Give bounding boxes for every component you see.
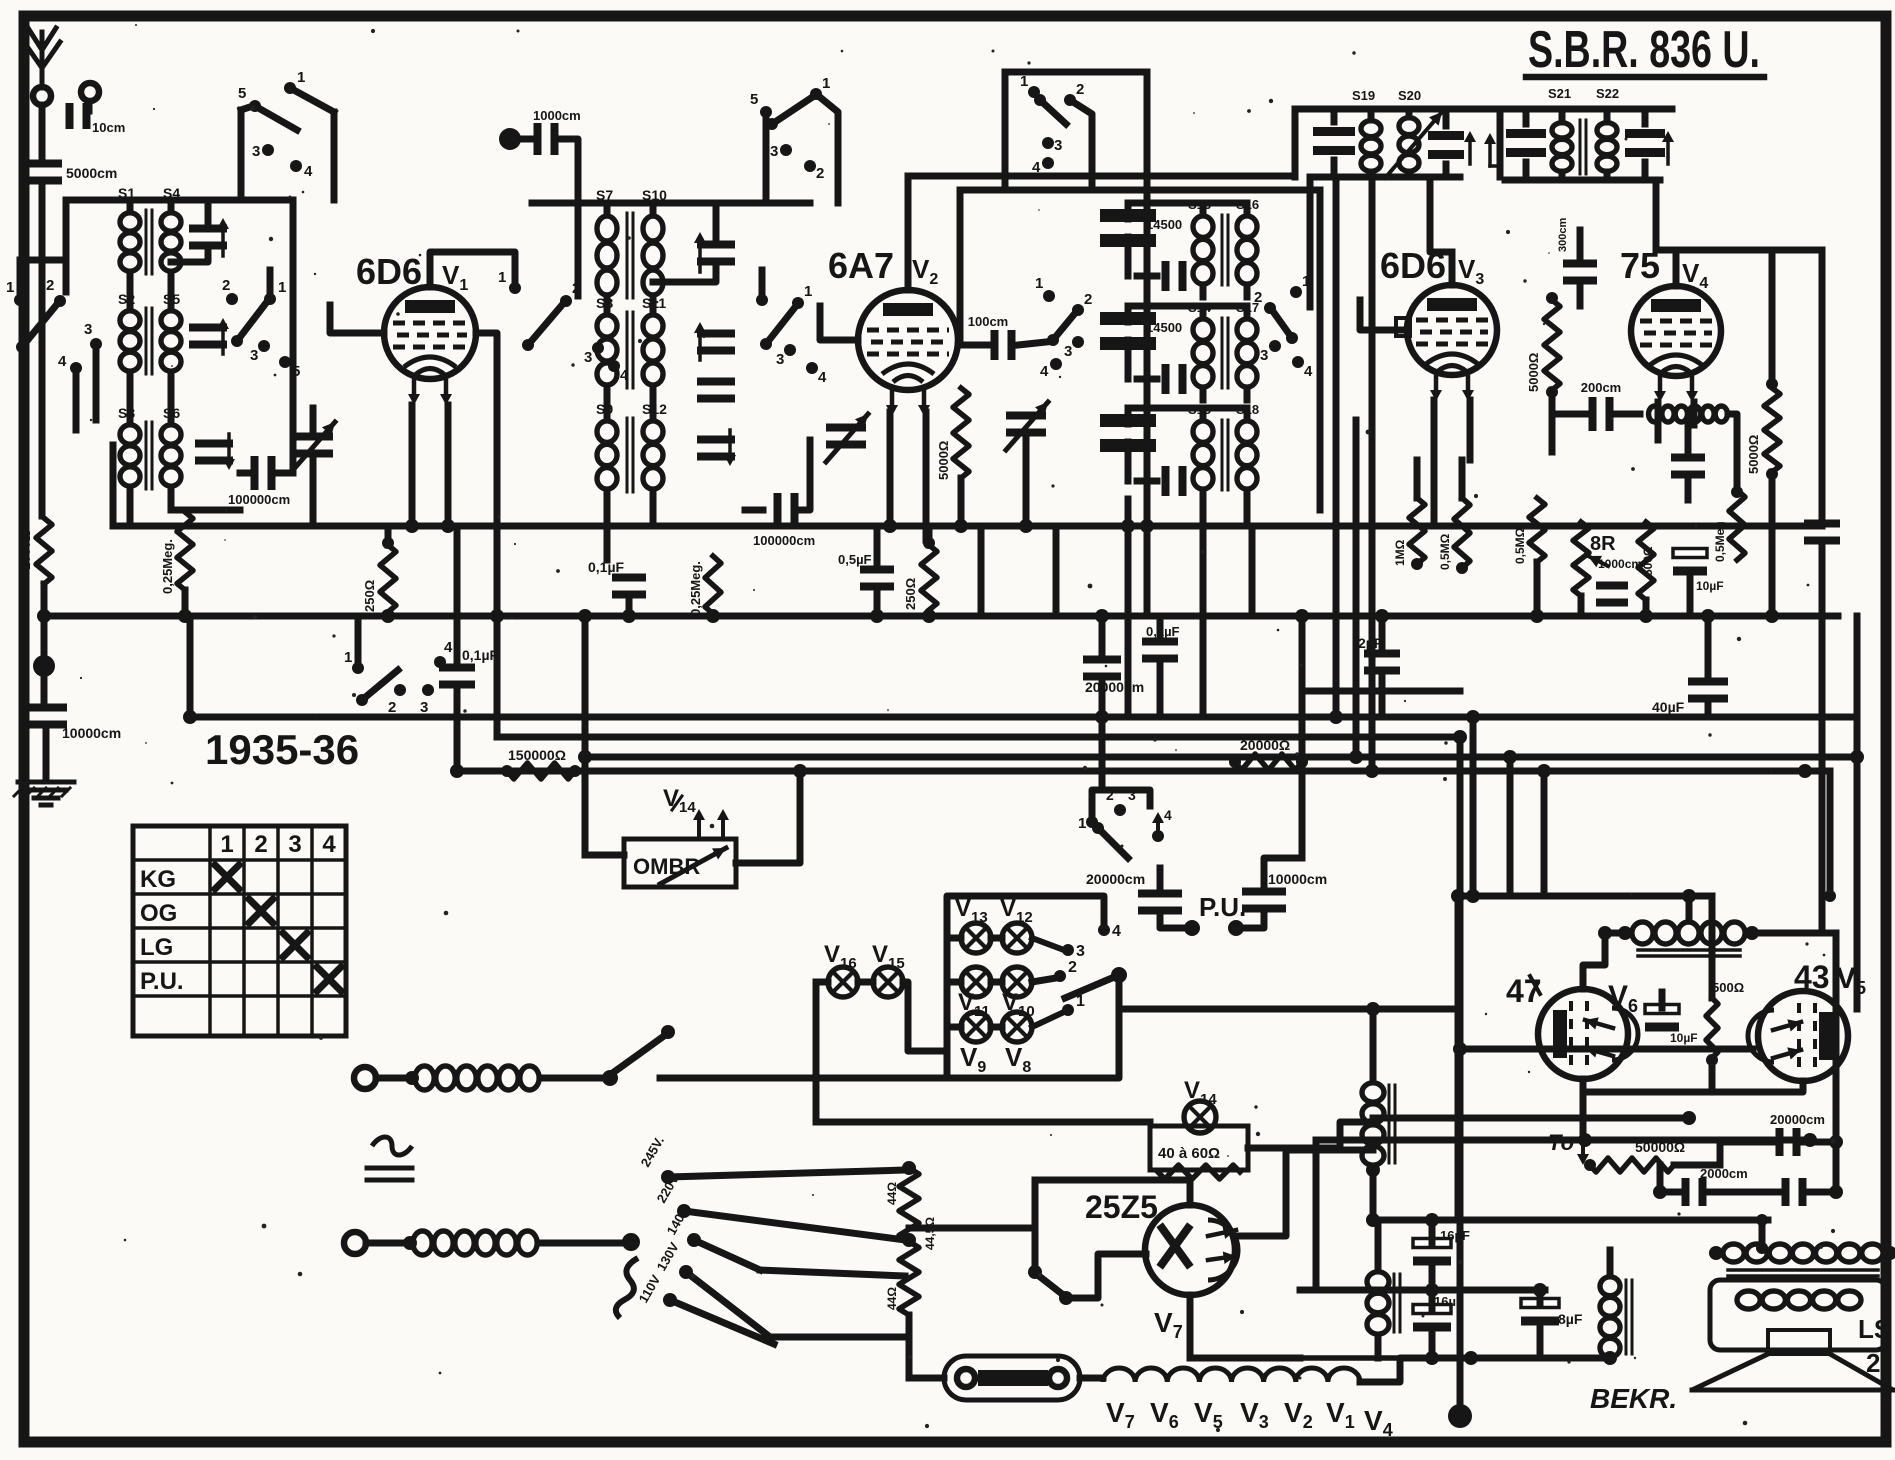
svg-text:200cm: 200cm	[1581, 380, 1621, 395]
svg-text:2: 2	[254, 831, 267, 858]
wire	[1092, 717, 1150, 822]
resistor 1MΩ	[1393, 498, 1425, 570]
capacitor 14500 #1	[1100, 209, 1182, 247]
wire	[43, 730, 50, 780]
wire fan	[668, 1170, 905, 1276]
capacitor 0.1µF	[1142, 624, 1180, 663]
wire	[430, 252, 515, 287]
capacitor 10cm	[66, 101, 126, 135]
date label 1935-36	[205, 726, 359, 773]
core	[627, 312, 633, 388]
wire	[0, 0, 1, 1]
wire	[0, 0, 1, 1]
tuning indicator OMBR box	[624, 839, 736, 887]
switch contact 4	[1098, 923, 1121, 940]
label V2	[1284, 1397, 1313, 1432]
switch	[1078, 787, 1136, 858]
capacitor	[1162, 364, 1187, 394]
svg-text:5000Ω: 5000Ω	[936, 441, 951, 480]
wire	[1032, 959, 1077, 982]
svg-text:1: 1	[220, 831, 233, 858]
svg-text:1: 1	[804, 283, 812, 300]
svg-text:500Ω: 500Ω	[1712, 980, 1744, 995]
svg-text:4: 4	[322, 831, 336, 858]
svg-text:1: 1	[822, 75, 830, 92]
label 43 V5	[1794, 959, 1866, 998]
svg-text:LG: LG	[140, 934, 173, 961]
resistor 500Ω	[1706, 998, 1718, 1066]
wire	[1203, 285, 1247, 297]
coil S6	[161, 405, 181, 486]
wire	[1658, 402, 1694, 440]
svg-text:3: 3	[1064, 343, 1072, 360]
wire	[412, 405, 448, 526]
tap 220V	[654, 1171, 691, 1218]
lamp V10	[1002, 989, 1035, 1042]
svg-text:1: 1	[6, 279, 14, 296]
wire	[978, 526, 985, 616]
tube V5 43	[1748, 991, 1848, 1081]
capacitor 100cm	[958, 314, 1046, 360]
wire	[187, 616, 194, 717]
wire	[39, 181, 46, 516]
svg-text:2: 2	[1084, 291, 1092, 308]
capacitor	[1804, 520, 1840, 545]
switch contact 3	[252, 143, 274, 160]
label 25Z5	[1085, 1189, 1158, 1225]
mains choke	[415, 1066, 539, 1090]
wire	[1125, 499, 1132, 717]
wire	[1505, 162, 1660, 180]
wire	[1300, 1290, 1610, 1358]
tube V6 47	[1538, 980, 1638, 1079]
svg-text:1: 1	[297, 69, 305, 86]
capacitor 40µF	[1652, 678, 1728, 716]
antenna terminal 2	[81, 83, 99, 101]
capacitor 14500 #2	[1100, 312, 1182, 350]
svg-text:14500: 14500	[1146, 320, 1182, 335]
antenna	[24, 28, 60, 88]
coil S18	[1236, 402, 1259, 489]
wire	[890, 412, 926, 540]
label V14	[663, 785, 696, 816]
svg-text:LS: LS	[1858, 1314, 1891, 1344]
switch	[498, 269, 521, 294]
wire	[1824, 771, 1836, 902]
tube V4 75	[1620, 245, 1721, 402]
wire	[1705, 616, 1712, 717]
coil S5	[161, 291, 181, 371]
wire	[1144, 526, 1151, 616]
wire	[1369, 177, 1376, 771]
lamp panel frame	[947, 896, 1104, 1078]
wire	[1366, 1163, 1380, 1220]
wire	[1203, 306, 1247, 318]
svg-text:5: 5	[238, 85, 246, 102]
wire	[1455, 896, 1462, 1220]
wire	[538, 1233, 640, 1251]
svg-text:44Ω: 44Ω	[885, 1182, 899, 1205]
svg-text:3: 3	[1260, 347, 1268, 364]
wire	[1157, 616, 1164, 717]
svg-text:S21: S21	[1548, 86, 1571, 101]
label P.U.	[1199, 892, 1246, 922]
coil S22	[1596, 86, 1619, 171]
wire	[1023, 434, 1030, 526]
svg-text:20000cm: 20000cm	[1085, 679, 1144, 695]
lamp V13	[955, 895, 991, 953]
wire	[1709, 896, 1716, 1092]
switch arm	[1032, 938, 1085, 960]
svg-text:P.U.: P.U.	[1199, 892, 1246, 922]
wire	[0, 0, 1, 1]
core	[1580, 120, 1586, 174]
svg-text:P.U.: P.U.	[140, 968, 184, 995]
trimmer arrow	[1662, 131, 1674, 164]
coil S12	[642, 401, 667, 489]
svg-text:1000cm: 1000cm	[1598, 557, 1642, 571]
svg-text:2: 2	[1076, 81, 1084, 98]
wire	[1505, 106, 1672, 113]
wire	[909, 1180, 1035, 1266]
svg-text:1MΩ: 1MΩ	[1393, 539, 1407, 566]
ground	[14, 782, 74, 805]
svg-text:1: 1	[1078, 815, 1086, 832]
wire	[1203, 490, 1247, 502]
capacitor 2µF	[1358, 635, 1400, 675]
capacitor 8µF	[1521, 1299, 1583, 1328]
wire	[1453, 1042, 1753, 1056]
svg-text:10cm: 10cm	[92, 120, 125, 135]
wire	[1549, 390, 1556, 452]
switch	[522, 280, 580, 351]
wire	[454, 526, 461, 771]
resistor 5000Ω	[1526, 292, 1560, 398]
wire	[1307, 177, 1314, 307]
wire	[376, 1071, 419, 1085]
mains switch	[614, 1025, 675, 1072]
tap 245V	[638, 1134, 675, 1184]
svg-text:16µF: 16µF	[1440, 1228, 1470, 1243]
svg-text:2: 2	[222, 277, 230, 294]
wire	[909, 1375, 1103, 1382]
core	[146, 422, 152, 489]
wire	[1334, 109, 1446, 126]
svg-text:3: 3	[1076, 943, 1085, 960]
wire	[1190, 1295, 1300, 1358]
wire	[1429, 1220, 1436, 1290]
coil S14	[1188, 300, 1213, 387]
wire	[0, 0, 1, 1]
svg-text:1: 1	[1035, 275, 1043, 292]
svg-text:2: 2	[1866, 1348, 1880, 1378]
wire B+	[1373, 1115, 1689, 1122]
resistor 5000Ω	[936, 388, 969, 480]
svg-text:BEKR.: BEKR.	[1590, 1383, 1677, 1414]
wire	[66, 197, 293, 204]
wire	[0, 0, 1, 1]
filter choke	[1362, 1083, 1395, 1165]
wire	[0, 0, 1, 1]
svg-text:100000cm: 100000cm	[228, 492, 290, 507]
svg-text:1: 1	[344, 649, 352, 666]
wire	[540, 1070, 618, 1086]
wire	[1854, 616, 1861, 1009]
switch	[1035, 275, 1092, 346]
variable capacitor	[826, 414, 868, 462]
capacitor	[1313, 127, 1355, 155]
capacitor 0.5µF	[838, 552, 894, 591]
wire	[130, 200, 208, 262]
mains choke	[413, 1231, 537, 1255]
squiggle	[616, 1258, 638, 1318]
label To	[1548, 1130, 1574, 1155]
capacitor 1000cm	[1596, 557, 1642, 607]
trimmer capacitor	[694, 232, 735, 272]
speaker transformer	[1709, 1244, 1895, 1276]
label V7	[1106, 1397, 1135, 1432]
wire	[1160, 868, 1200, 936]
switch contact 3	[84, 321, 102, 350]
wire	[331, 112, 338, 200]
svg-text:0,5µF: 0,5µF	[838, 552, 872, 567]
wire	[1537, 562, 1690, 616]
wire	[41, 584, 48, 660]
svg-text:20000Ω: 20000Ω	[1240, 737, 1290, 753]
resistor 0.5MΩ	[1713, 486, 1745, 562]
svg-text:2: 2	[1068, 959, 1077, 976]
wire	[736, 771, 800, 863]
wire	[874, 526, 881, 616]
wire	[1248, 1122, 1373, 1148]
capacitor 10000cm	[25, 704, 121, 742]
wire	[0, 0, 1, 1]
lamp V16	[824, 941, 858, 997]
svg-text:5: 5	[292, 363, 300, 380]
capacitor 10000cm	[1242, 871, 1327, 913]
wire	[0, 0, 1, 1]
wire	[1053, 526, 1060, 616]
indicator leads	[693, 809, 729, 839]
wire	[1236, 1150, 1373, 1236]
core	[146, 210, 152, 274]
L arrow	[1484, 133, 1500, 166]
switch contact 3	[250, 340, 270, 364]
svg-text:8R: 8R	[1590, 533, 1616, 555]
lamp	[1002, 967, 1032, 997]
node	[1448, 1404, 1472, 1428]
svg-text:14500: 14500	[1146, 217, 1182, 232]
node	[33, 655, 55, 677]
resistor 20000Ω	[0, 0, 1, 1]
svg-text:20000cm: 20000cm	[1770, 1112, 1825, 1127]
wire	[0, 0, 1, 1]
wire	[0, 0, 1, 1]
svg-text:KG: KG	[140, 866, 176, 893]
wire	[1503, 750, 1517, 896]
svg-text:OG: OG	[140, 900, 177, 927]
wire	[1228, 616, 1302, 936]
svg-text:0,1µF: 0,1µF	[588, 559, 625, 575]
wire	[1128, 306, 1203, 322]
wire	[1035, 1180, 1190, 1205]
wire	[0, 0, 1, 1]
svg-text:6D6: 6D6	[356, 251, 422, 292]
ballast box 40-60Ω	[1150, 1126, 1248, 1170]
wire	[130, 487, 240, 526]
capacitor 20000cm	[1083, 656, 1144, 696]
selector arm	[1065, 967, 1127, 998]
wire	[1607, 1250, 1614, 1276]
wire	[607, 490, 653, 560]
wire	[820, 306, 858, 340]
coil S21	[1548, 86, 1572, 171]
wire	[41, 666, 48, 702]
wire	[240, 200, 293, 473]
wire	[1656, 180, 1822, 286]
switch contact 4	[1040, 358, 1062, 380]
svg-text:1: 1	[498, 269, 506, 286]
wire bus L4	[456, 768, 1830, 775]
wire	[1099, 616, 1106, 717]
terminal	[499, 128, 521, 150]
wire	[1752, 933, 1836, 1192]
wire	[1310, 160, 1460, 177]
wire	[947, 979, 1002, 986]
svg-text:4: 4	[1304, 363, 1313, 380]
resistor 5000Ω	[1746, 378, 1780, 480]
wire	[1300, 1287, 1545, 1294]
coil S16	[1236, 197, 1259, 284]
capacitor 14500 #3	[1100, 414, 1156, 452]
svg-text:2: 2	[388, 699, 396, 716]
capacitor 5000cm	[26, 160, 117, 185]
svg-text:8µF: 8µF	[1558, 1311, 1583, 1327]
capacitor 0.1µF	[439, 647, 499, 689]
switch contact 1	[264, 279, 286, 305]
wire	[1660, 1165, 1836, 1192]
capacitor 2000cm	[1782, 1178, 1807, 1206]
wire	[0, 0, 1, 1]
switch contact	[1152, 807, 1172, 842]
switch	[238, 69, 305, 130]
wire	[0, 0, 1, 1]
wire	[1585, 1137, 1810, 1144]
capacitor 16µF	[1413, 1294, 1464, 1332]
switch contact 3	[1260, 340, 1281, 364]
wire	[908, 176, 1295, 290]
core	[1222, 420, 1228, 490]
wire	[607, 296, 653, 314]
resistor 0.25Meg	[160, 512, 193, 594]
switch	[1254, 273, 1310, 344]
svg-text:44,5Ω: 44,5Ω	[923, 1217, 937, 1250]
tap 140V	[664, 1203, 701, 1247]
wire	[0, 0, 1, 1]
label 47	[1506, 973, 1542, 1009]
capacitor 1000cm	[521, 108, 581, 155]
svg-text:2: 2	[816, 165, 824, 182]
switch contact 4	[58, 353, 82, 374]
wire	[1203, 388, 1247, 400]
resistor 20000Ω	[1229, 737, 1308, 770]
wire	[1583, 933, 1625, 989]
wire	[1302, 688, 1460, 695]
switch	[16, 277, 66, 353]
wire	[1317, 190, 1324, 510]
svg-text:0,25Meg.: 0,25Meg.	[160, 539, 175, 594]
wire	[585, 771, 624, 855]
svg-text:1: 1	[1020, 73, 1028, 90]
svg-text:4: 4	[620, 367, 629, 384]
switch arm	[1032, 993, 1085, 1027]
core	[1222, 215, 1228, 285]
wire	[813, 982, 820, 1122]
capacitor 20000cm	[1086, 871, 1182, 915]
title S.B.R. 836 U.	[1526, 21, 1764, 79]
wire bus L2	[500, 734, 1460, 741]
double line	[367, 1168, 412, 1180]
svg-text:150000Ω: 150000Ω	[508, 747, 566, 763]
lamp V15	[872, 941, 905, 997]
svg-text:3: 3	[84, 321, 92, 338]
wire	[0, 0, 1, 1]
wire	[130, 372, 171, 424]
wire	[957, 190, 964, 345]
core	[146, 308, 152, 374]
svg-text:4: 4	[1032, 159, 1041, 176]
label V1	[1326, 1397, 1355, 1432]
svg-text:2000cm: 2000cm	[1700, 1166, 1748, 1181]
svg-text:3: 3	[252, 143, 260, 160]
wire	[660, 1075, 947, 1082]
coil S1	[118, 185, 140, 271]
svg-text:To: To	[1548, 1130, 1574, 1155]
svg-text:4: 4	[304, 163, 313, 180]
capacitor 0.1µF	[588, 559, 646, 599]
switch	[344, 649, 406, 716]
svg-text:5000Ω: 5000Ω	[1746, 435, 1761, 474]
capacitor 100000cm	[753, 493, 815, 548]
switch contact 3	[1042, 137, 1062, 154]
wire	[1203, 408, 1247, 420]
svg-text:6A7: 6A7	[828, 245, 894, 286]
wire	[1295, 109, 1500, 177]
capacitor	[1162, 261, 1187, 291]
svg-text:1935-36: 1935-36	[205, 726, 359, 773]
wire bus B+	[1373, 1217, 1768, 1224]
switch contact 4	[1032, 157, 1054, 176]
svg-text:10000cm: 10000cm	[62, 725, 121, 741]
wire	[1070, 100, 1092, 190]
svg-text:3: 3	[770, 143, 778, 160]
coil S17	[1236, 300, 1259, 387]
wire	[330, 305, 384, 333]
coil S8	[596, 295, 617, 385]
wire	[355, 616, 362, 668]
wire	[909, 1315, 936, 1378]
tube V3 6D6	[1380, 245, 1497, 401]
wire	[607, 386, 653, 420]
switch contact 3	[420, 684, 434, 716]
svg-text:25Z5: 25Z5	[1085, 1189, 1158, 1225]
switch	[1020, 73, 1084, 124]
capacitor 16µF	[1413, 1228, 1470, 1266]
wire	[1686, 896, 1693, 920]
capacitor 200cm	[0, 0, 1, 1]
tap 110V	[636, 1272, 677, 1307]
wire	[560, 139, 578, 296]
